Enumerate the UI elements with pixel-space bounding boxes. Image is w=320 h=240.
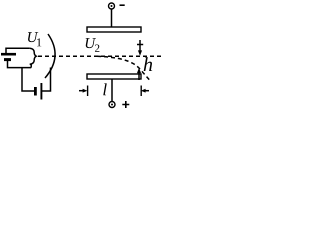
l dimension right arrow tail (144, 90, 149, 92)
dashed deflected trajectory (97, 56, 150, 80)
battery B1 short electrode (4, 58, 11, 61)
label l (103, 83, 106, 95)
battery B2 short electrode (34, 87, 37, 96)
minus sign (120, 4, 125, 6)
l dimension left tick (87, 86, 89, 97)
l dimension right arrowhead (141, 89, 146, 93)
label U2 subscript 2 (95, 45, 99, 52)
wire terminal to top plate (111, 9, 113, 27)
bottom terminal center dot (111, 104, 113, 106)
h dimension up arrowhead (137, 68, 141, 73)
h dimension down arrow crossbar (137, 44, 143, 46)
wire B2 to anode arc (42, 68, 51, 92)
battery B1 long electrode (1, 53, 16, 56)
label U1 letter U (28, 32, 38, 42)
battery B2 long electrode (40, 83, 42, 100)
l dimension left arrow tail (79, 90, 84, 92)
top terminal circle (109, 3, 115, 9)
plus sign (122, 101, 129, 108)
filament bottom connector (30, 64, 31, 67)
bottom terminal circle (109, 102, 115, 108)
wire bottom plate to terminal (111, 79, 113, 101)
filament (heater) (30, 48, 36, 64)
top terminal center dot (111, 5, 113, 7)
wire junction drop to accelerating battery (22, 68, 34, 91)
top plate (87, 27, 141, 32)
anode arc (45, 34, 55, 78)
label h (144, 57, 152, 71)
wire from B1 top to filament top (6, 48, 30, 53)
label U1 subscript 1 (37, 38, 41, 46)
wire B1 bottom to filament bottom (8, 61, 32, 68)
h dimension up arrow tail (138, 72, 140, 80)
bottom plate (87, 74, 141, 79)
label U2 letter U (86, 38, 96, 48)
l dimension left arrowhead (83, 89, 88, 93)
dashed beam axis (38, 55, 163, 57)
h dimension down arrow tail (139, 40, 141, 51)
h dimension down arrowhead (138, 50, 142, 55)
l dimension right tick (140, 86, 142, 97)
